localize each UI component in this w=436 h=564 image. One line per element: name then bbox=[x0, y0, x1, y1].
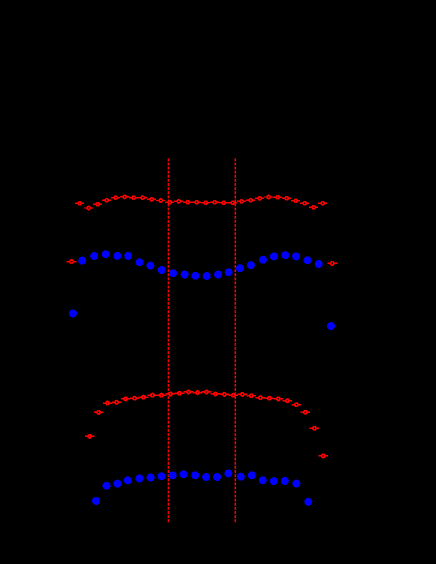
top panel blue filled circles bbox=[78, 250, 322, 280]
isolated blue outlier right bbox=[327, 322, 335, 330]
vertical dashed line left bbox=[167, 159, 169, 524]
red flagged endpoint right of top blue series bbox=[327, 262, 337, 265]
bottom panel red series with error bars bbox=[85, 390, 328, 457]
red flagged endpoint left of top blue series bbox=[67, 260, 77, 263]
isolated blue outlier left bbox=[69, 309, 77, 317]
vertical dashed line right bbox=[234, 159, 236, 524]
bottom panel blue filled circles bbox=[92, 469, 312, 505]
top panel red series with error bars bbox=[75, 195, 327, 209]
